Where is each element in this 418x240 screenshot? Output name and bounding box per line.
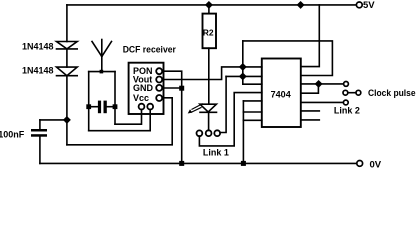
node tuning cap right junction: [113, 104, 118, 109]
wire diode supply to Vcc pin: [67, 98, 172, 145]
node input tie lower: [239, 72, 247, 80]
wire antenna pin b drop: [89, 110, 151, 131]
node Link1 pin A circle: [197, 130, 203, 136]
node Link2 top circle: [344, 82, 349, 87]
svg-text:1N4148: 1N4148: [22, 66, 54, 76]
gate U2 7404 box: [262, 59, 301, 128]
wire 5V top rail: [67, 4, 356, 6]
antenna left arm: [92, 42, 102, 57]
wire GND pin to riser: [162, 87, 181, 89]
node R2 rail junction: [205, 1, 213, 9]
node diode-supply junction: [63, 116, 71, 124]
wire unused output stub upper: [301, 110, 320, 112]
node logic ground to rail junction: [241, 161, 246, 166]
node Link1 pin B circle: [206, 130, 212, 136]
capacitor C1 tuning: [89, 101, 115, 114]
wire rail to D1 anode: [66, 5, 68, 42]
svg-text:Link 2: Link 2: [334, 106, 360, 116]
wire 7404 pin 6: [243, 111, 261, 113]
diode D2 1N4148: [57, 67, 78, 76]
svg-text:5V: 5V: [363, 0, 375, 11]
wire clock pulse link stub: [348, 92, 356, 94]
wire output to Link2 top: [301, 83, 344, 85]
wire R2 top lead: [208, 5, 210, 14]
svg-text:R2: R2: [203, 28, 214, 38]
wire Link1 A to 7404 pin 4: [199, 93, 261, 146]
wire spare-input ground riser: [242, 101, 244, 163]
wire Link1 C riser to 7404 pin 2: [220, 76, 226, 132]
pin Vcc circle: [156, 95, 162, 101]
wire D2 cathode down to corner: [66, 76, 68, 145]
svg-text:0V: 0V: [370, 159, 382, 168]
LED emission arrows: [192, 104, 203, 112]
pin antenna b circle: [147, 104, 153, 110]
node input tie upper: [239, 63, 247, 71]
wire 7404 pin 2 from Link1: [226, 75, 262, 77]
node 0V terminal: [357, 161, 363, 167]
wire 0V bottom rail: [40, 162, 357, 164]
wire Vout to 7404 pin 1: [162, 67, 261, 80]
svg-text:GND: GND: [133, 83, 154, 93]
node tuning cap left junction: [86, 104, 91, 109]
wire feedback over-route: [243, 41, 333, 76]
wire output to Link2 bottom: [301, 101, 343, 103]
node rail junction: [297, 1, 305, 9]
wire antenna pin a drop: [115, 110, 142, 125]
wire 7404 pin 5: [243, 100, 261, 102]
pin PON circle: [156, 68, 162, 74]
svg-text:Clock pulse: Clock pulse: [368, 88, 416, 98]
node antenna junction: [100, 70, 104, 74]
pin antenna a circle: [139, 104, 145, 110]
capacitor C2 100nF: [31, 120, 47, 163]
node Link1 pin C circle: [214, 130, 220, 136]
svg-text:Vcc: Vcc: [133, 93, 149, 103]
node PON-GND junction: [179, 86, 184, 91]
wire unused output stub lower: [301, 119, 320, 121]
wire R2 to LED anode: [208, 48, 210, 104]
wire paralleled output pin: [301, 84, 319, 93]
wire input tie riser to 7404 pin 3: [243, 41, 262, 84]
antenna right arm: [102, 42, 112, 57]
node 5V terminal: [356, 2, 362, 8]
wire 7404 Vcc pin 14 to 5V: [301, 5, 320, 67]
svg-text:7404: 7404: [271, 89, 291, 99]
pin Vout circle: [156, 77, 162, 83]
wire D1 to D2: [66, 49, 68, 67]
diode D1 1N4148: [57, 42, 78, 49]
svg-text:1N4148: 1N4148: [22, 41, 54, 51]
svg-text:DCF receiver: DCF receiver: [123, 44, 177, 54]
node Clock pulse circle left: [343, 90, 348, 95]
svg-text:100nF: 100nF: [0, 129, 25, 139]
wire junction to 100nF: [40, 119, 67, 121]
svg-text:Link 1: Link 1: [203, 148, 229, 158]
antenna mast: [101, 40, 103, 72]
node Link2 bottom circle: [343, 100, 348, 105]
node receiver ground to rail junction: [179, 161, 184, 166]
wire PON tie-down: [162, 71, 181, 163]
pin GND circle: [156, 85, 162, 91]
module U1 DCF receiver box: [129, 63, 164, 114]
wire 7404 pin 7 ground: [243, 119, 261, 121]
LED D3: [200, 104, 217, 130]
node Clock pulse circle right: [356, 90, 361, 95]
coil ferrite antenna frame: [89, 72, 115, 131]
node paralleled output tie: [315, 80, 323, 88]
resistor R2: [203, 14, 217, 49]
